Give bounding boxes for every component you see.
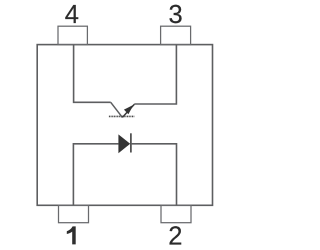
pin 1 pad [59, 205, 89, 222]
svg-text:2: 2 [168, 223, 182, 250]
wire pin 1 to diode anode [73, 144, 118, 206]
svg-text:3: 3 [169, 1, 183, 29]
pin 1 number label (custom arial-style glyph) [67, 226, 76, 244]
diode D1 cathode bar [130, 133, 132, 152]
wire diode cathode to pin 2 [131, 144, 177, 206]
pin 3 pad [161, 26, 191, 44]
svg-text:4: 4 [65, 1, 79, 29]
wire pin 4 to transistor collector [74, 45, 111, 103]
diode D1 anode triangle [118, 134, 130, 153]
pin 4 pad [58, 26, 87, 44]
package outline [37, 45, 212, 206]
pin 2 pad [161, 205, 191, 222]
wire transistor emitter to pin 3 [134, 45, 176, 104]
transistor Q1 emitter arm [122, 104, 134, 117]
transistor Q1 collector arm [111, 102, 123, 117]
transistor Q1 base bar (hatched) [109, 115, 134, 117]
transistor Q1 emitter arrowhead [124, 105, 134, 114]
